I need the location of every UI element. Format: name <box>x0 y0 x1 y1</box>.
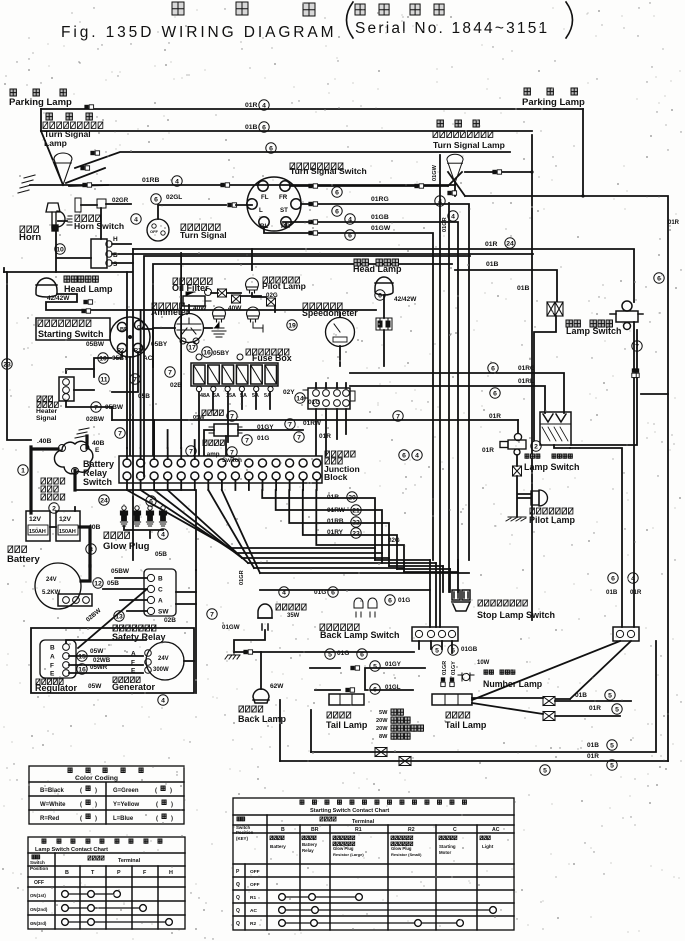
svg-text:Starting Switch Contact Chart: Starting Switch Contact Chart <box>310 808 389 814</box>
svg-text:6: 6 <box>491 365 495 372</box>
key lamp switch feed from 01R24 <box>633 322 635 368</box>
lamp feed diagonals <box>66 168 108 186</box>
oil filter symbol <box>0 0 1 1</box>
glow plug wires <box>124 526 163 538</box>
svg-text:Terminal: Terminal <box>352 819 375 825</box>
svg-text:5: 5 <box>610 762 614 769</box>
svg-text:Stop Lamp Switch: Stop Lamp Switch <box>477 610 555 620</box>
battery 1 <box>26 511 50 541</box>
beacon lamp <box>258 604 272 630</box>
svg-text:): ) <box>95 788 97 794</box>
svg-text:B: B <box>65 870 69 876</box>
starting switch circle <box>110 317 150 357</box>
svg-text:23: 23 <box>352 530 360 537</box>
svg-text:5: 5 <box>610 742 614 749</box>
diagonal 02BW <box>78 589 147 648</box>
svg-text:Head Lamp: Head Lamp <box>64 284 113 294</box>
svg-text:FR: FR <box>279 194 288 201</box>
starting switch contact chart <box>233 798 514 930</box>
parking lamp right label <box>524 88 530 95</box>
svg-text:ST: ST <box>280 207 288 214</box>
turn signal switch label <box>290 163 343 169</box>
battery relay switch blob <box>54 441 92 474</box>
AC row contacts <box>282 909 493 911</box>
svg-text:E: E <box>131 668 136 675</box>
svg-text:6: 6 <box>335 208 339 215</box>
horn relay box <box>91 239 107 268</box>
svg-text:Relay: Relay <box>302 848 314 853</box>
generator <box>146 642 184 680</box>
svg-text:02G: 02G <box>388 537 400 544</box>
glow plug label <box>104 532 129 538</box>
svg-text:Resistor (Small): Resistor (Small) <box>391 852 422 857</box>
svg-text:01GW: 01GW <box>222 624 240 631</box>
svg-text:02BW: 02BW <box>86 416 105 423</box>
head lamp right symbol <box>375 277 393 295</box>
svg-text:AC: AC <box>143 355 153 362</box>
svg-text:SW: SW <box>158 609 169 616</box>
bundle horizontals <box>230 548 469 573</box>
svg-text:20W: 20W <box>376 726 388 732</box>
turn signal switch circle <box>247 177 301 231</box>
svg-text:7: 7 <box>168 369 172 376</box>
svg-text:B=Black: B=Black <box>40 788 65 794</box>
wire 23 left vertical <box>7 272 31 440</box>
color coding table <box>29 766 184 824</box>
svg-text:(: ( <box>156 816 158 822</box>
svg-text:R2: R2 <box>408 827 415 833</box>
starter motor <box>35 563 81 609</box>
svg-text:05WR: 05WR <box>90 664 108 671</box>
heater signal wires <box>66 369 112 407</box>
svg-text:20W: 20W <box>376 718 388 724</box>
horn wires <box>56 204 131 272</box>
svg-text:01GY: 01GY <box>385 661 402 668</box>
svg-text:G=Green: G=Green <box>113 788 139 794</box>
svg-text:02WB: 02WB <box>93 657 111 664</box>
svg-text:17: 17 <box>188 344 196 351</box>
svg-text:5: 5 <box>328 651 332 658</box>
svg-text:5W: 5W <box>379 710 388 716</box>
svg-text:01B: 01B <box>575 692 587 699</box>
svg-text:Parking Lamp: Parking Lamp <box>9 97 72 108</box>
heater signal symbol <box>59 377 74 401</box>
svg-text:15: 15 <box>78 653 86 660</box>
svg-text:Glow Plug: Glow Plug <box>333 846 354 851</box>
svg-text:C: C <box>158 587 163 594</box>
svg-text:12V: 12V <box>59 516 72 523</box>
svg-text:01RW: 01RW <box>303 420 322 427</box>
svg-text:Battery: Battery <box>270 844 286 849</box>
x connectors bottom right <box>543 697 555 706</box>
title (適用号機) parens <box>347 2 354 38</box>
svg-text:01G: 01G <box>257 435 269 442</box>
svg-text:7: 7 <box>230 413 234 420</box>
junction block label <box>325 451 355 457</box>
thick 40B wires <box>31 447 58 513</box>
svg-text:8W: 8W <box>379 734 388 740</box>
svg-text:6: 6 <box>402 452 406 459</box>
svg-text:4: 4 <box>161 697 165 704</box>
on1 row <box>65 893 117 895</box>
regulator box <box>40 640 76 678</box>
svg-text:01R: 01R <box>485 241 498 248</box>
svg-text:20: 20 <box>348 494 356 501</box>
wire 02G <box>316 490 404 572</box>
svg-text:Color Coding: Color Coding <box>75 775 118 782</box>
svg-text:Fuse Box: Fuse Box <box>252 353 292 363</box>
svg-text:11: 11 <box>100 376 107 383</box>
svg-text:4: 4 <box>451 213 455 220</box>
svg-text:12V: 12V <box>29 516 42 523</box>
main horizontal wire 01RB <box>30 184 455 186</box>
vertical 01GW label <box>432 164 438 181</box>
svg-text:24: 24 <box>506 240 514 247</box>
svg-text:02GL: 02GL <box>166 194 182 201</box>
svg-text:Regulator: Regulator <box>35 683 78 693</box>
svg-text:01RW: 01RW <box>327 507 346 514</box>
svg-text:BR: BR <box>311 827 319 833</box>
svg-text:01G: 01G <box>337 650 349 657</box>
speedometer label <box>303 303 342 309</box>
svg-text:1: 1 <box>21 467 25 474</box>
svg-text:): ) <box>171 816 173 822</box>
svg-text:6: 6 <box>335 189 339 196</box>
head lamp left label <box>64 276 77 282</box>
svg-text:Lamp Switch: Lamp Switch <box>566 326 622 336</box>
svg-text:): ) <box>95 802 97 808</box>
ground left of turn signal lamp <box>18 175 35 193</box>
svg-text:05W: 05W <box>88 683 102 690</box>
svg-text:Parking Lamp: Parking Lamp <box>522 97 585 108</box>
svg-text:01GW: 01GW <box>432 164 438 181</box>
svg-text:H: H <box>113 236 118 243</box>
right lamp cross wires <box>448 172 465 196</box>
svg-text:01R: 01R <box>668 220 680 226</box>
svg-text:(KEY): (KEY) <box>236 836 248 841</box>
svg-text:6: 6 <box>388 597 392 604</box>
svg-text:42/42W: 42/42W <box>394 296 417 303</box>
svg-text:Motor: Motor <box>439 850 451 855</box>
svg-text:01GR: 01GR <box>442 217 448 232</box>
turn signal lamp left symbol <box>54 153 72 185</box>
svg-text:Switch: Switch <box>83 477 112 487</box>
wire 01R top <box>41 108 583 110</box>
flasher wires <box>158 205 226 219</box>
svg-text:): ) <box>95 816 97 822</box>
svg-text:ON(1st): ON(1st) <box>30 893 46 898</box>
svg-text:5: 5 <box>543 767 547 774</box>
svg-text:5A: 5A <box>240 393 247 399</box>
wire 01RL to lamp switch <box>350 386 545 413</box>
bundle fan-out from junction block <box>127 490 230 548</box>
pilot lamp right label <box>530 508 573 514</box>
svg-text:01RG: 01RG <box>371 196 389 203</box>
svg-text:4: 4 <box>631 575 635 582</box>
svg-text:Speedometer: Speedometer <box>302 308 358 318</box>
lamp switch main box <box>540 412 571 445</box>
svg-text:Starting: Starting <box>439 844 456 849</box>
svg-text:Resistor (Large): Resistor (Large) <box>333 852 364 857</box>
svg-text:Horn: Horn <box>19 232 41 243</box>
svg-text:Glow Plug: Glow Plug <box>391 846 412 851</box>
svg-text:Heater: Heater <box>36 408 58 415</box>
svg-text:4: 4 <box>262 102 266 109</box>
title japanese 配線図 <box>172 2 184 15</box>
tail lamp right <box>432 694 472 705</box>
heater signal label <box>37 396 53 401</box>
svg-text:(: ( <box>156 802 158 808</box>
svg-text:7: 7 <box>210 611 214 618</box>
head lamp left symbol <box>36 278 57 297</box>
svg-text:10: 10 <box>99 355 107 362</box>
svg-text:01R: 01R <box>589 705 601 712</box>
svg-text:5: 5 <box>435 647 439 654</box>
svg-text:(: ( <box>155 788 157 794</box>
svg-text:Signal: Signal <box>36 415 57 422</box>
svg-text:.40B: .40B <box>37 438 51 445</box>
svg-text:6: 6 <box>360 651 364 658</box>
horn switch <box>75 198 81 212</box>
on2 row <box>65 907 143 909</box>
svg-text:B: B <box>50 645 55 652</box>
svg-text:10: 10 <box>56 246 64 253</box>
svg-text:S: S <box>113 261 118 268</box>
svg-text:21: 21 <box>352 507 360 514</box>
lamp switch contact chart <box>28 837 185 929</box>
dash lamp switch connector box <box>308 388 350 409</box>
lamp switch label <box>525 454 540 458</box>
svg-text:Q: Q <box>236 921 240 927</box>
svg-text:B: B <box>281 827 285 833</box>
svg-text:01B: 01B <box>517 285 530 292</box>
svg-text:E: E <box>95 447 100 454</box>
svg-text:5: 5 <box>608 692 612 699</box>
wire 01RG to lamp switch <box>350 373 564 413</box>
turn signal lamp left label <box>46 113 52 120</box>
svg-text:6: 6 <box>154 196 158 203</box>
svg-text:01R: 01R <box>587 753 599 760</box>
svg-text:3: 3 <box>89 546 93 553</box>
wire 01RW 21 <box>276 490 382 563</box>
svg-text:6: 6 <box>262 124 266 131</box>
horn symbol <box>46 203 65 231</box>
svg-text:5: 5 <box>373 663 377 670</box>
svg-text:Turn Signal: Turn Signal <box>180 230 227 240</box>
svg-text:01GB: 01GB <box>371 214 389 221</box>
svg-text:01RL: 01RL <box>518 378 534 385</box>
svg-text:Head Lamp: Head Lamp <box>353 264 402 274</box>
key lamp switch right <box>610 301 643 330</box>
svg-text:(: ( <box>80 788 82 794</box>
ammeter wires <box>153 305 212 328</box>
svg-text:01GB: 01GB <box>461 646 478 653</box>
diagonals to tail lamp <box>472 641 631 700</box>
lamp switch small symbol <box>500 433 526 455</box>
svg-text:24: 24 <box>100 497 108 504</box>
svg-text:6: 6 <box>493 390 497 397</box>
wires 01GY 01GL <box>365 668 425 690</box>
svg-text:01GY: 01GY <box>451 661 457 675</box>
svg-text:300W: 300W <box>153 667 169 673</box>
40W bulbs <box>213 307 226 322</box>
svg-text:16: 16 <box>78 666 86 673</box>
svg-text:7: 7 <box>288 421 292 428</box>
svg-text:R1: R1 <box>355 827 362 833</box>
svg-text:ON(2nd): ON(2nd) <box>30 907 48 912</box>
svg-text:Pilot Lamp: Pilot Lamp <box>262 281 306 291</box>
turn signal lamp right symbol <box>447 154 463 183</box>
fuse box <box>191 363 278 386</box>
svg-text:P: P <box>117 870 121 876</box>
starting switch wires <box>94 329 153 455</box>
svg-text:05BW: 05BW <box>86 341 105 348</box>
wires from relay <box>112 244 533 263</box>
svg-text:01R: 01R <box>327 494 339 501</box>
svg-text:A: A <box>131 651 136 658</box>
svg-text:Q: Q <box>236 908 240 914</box>
svg-text:7: 7 <box>396 413 400 420</box>
svg-text:10W: 10W <box>477 660 490 666</box>
svg-text:L: L <box>259 207 263 214</box>
enclosure box bottom-left <box>31 628 194 693</box>
svg-text:01RY: 01RY <box>327 529 344 536</box>
wire 01RY 23 <box>303 490 397 569</box>
generator label <box>113 677 140 682</box>
back lamp switch <box>320 624 359 630</box>
svg-text:C: C <box>453 827 457 833</box>
svg-text:01GW: 01GW <box>371 225 391 232</box>
wire 01B right <box>455 270 557 301</box>
parking lamp left label <box>10 89 16 96</box>
bottom long wires <box>311 641 656 752</box>
svg-text:FL: FL <box>261 194 269 201</box>
svg-text:01B: 01B <box>606 589 618 596</box>
battery 2 <box>56 511 80 541</box>
svg-text:E: E <box>50 671 55 678</box>
svg-text:Terminal: Terminal <box>118 858 141 864</box>
svg-text:4: 4 <box>415 452 419 459</box>
ammeter label <box>152 303 184 309</box>
wire 01R 24 <box>133 248 634 250</box>
svg-text:Back Lamp Switch: Back Lamp Switch <box>320 630 400 640</box>
safety relay label <box>113 625 156 631</box>
head lamp right connector <box>376 318 392 330</box>
svg-text:62W: 62W <box>270 683 284 690</box>
svg-text:Battery: Battery <box>7 554 40 565</box>
horn label <box>20 226 39 232</box>
ammeter symbol <box>175 314 204 343</box>
svg-text:01B: 01B <box>245 124 258 131</box>
right connector box <box>613 627 639 641</box>
svg-text:6: 6 <box>611 575 615 582</box>
regulator wires <box>66 640 146 673</box>
svg-text:150AH: 150AH <box>59 529 76 535</box>
svg-text:05BY: 05BY <box>213 350 230 357</box>
wire 01RG <box>301 204 469 560</box>
svg-text:7: 7 <box>245 437 249 444</box>
svg-text:): ) <box>170 788 172 794</box>
svg-text:01G: 01G <box>398 597 410 604</box>
small lamp switch lower <box>214 424 238 436</box>
svg-text:4: 4 <box>175 178 179 185</box>
svg-text:40B: 40B <box>92 440 105 447</box>
svg-text:Lamp Switch: Lamp Switch <box>524 462 580 472</box>
svg-text:L=Blue: L=Blue <box>113 816 134 822</box>
turn signal label <box>181 224 220 230</box>
svg-text:Serial No. 1844~3151: Serial No. 1844~3151 <box>355 20 549 37</box>
svg-text:F: F <box>131 660 135 667</box>
svg-text:OFF: OFF <box>150 229 159 234</box>
svg-text:AC: AC <box>492 827 500 833</box>
svg-text:OFF: OFF <box>250 869 260 875</box>
connector below <box>635 368 639 377</box>
svg-text:05BW: 05BW <box>105 404 124 411</box>
right 01B 01R drops <box>633 250 635 302</box>
wire 01GB <box>283 222 458 592</box>
svg-text:24V: 24V <box>46 577 57 583</box>
svg-text:6: 6 <box>149 498 153 505</box>
back lamp <box>253 689 269 703</box>
svg-text:OFF: OFF <box>34 880 44 886</box>
svg-text:6: 6 <box>348 232 352 239</box>
oil filter connectors <box>218 289 227 297</box>
svg-text:5: 5 <box>451 647 455 654</box>
svg-text:B: B <box>113 252 118 259</box>
svg-text:35W: 35W <box>287 613 300 619</box>
indicator bulbs above back lamp switch <box>354 598 363 617</box>
wire 01R 20 <box>262 490 375 560</box>
regulator label <box>36 679 63 684</box>
junction block <box>119 456 322 483</box>
svg-text:5A: 5A <box>213 393 220 399</box>
svg-text:01R: 01R <box>245 102 258 109</box>
svg-text:40W: 40W <box>193 305 207 312</box>
svg-text:12: 12 <box>94 580 102 587</box>
R1 row contacts <box>282 896 359 898</box>
svg-text:Tail Lamp: Tail Lamp <box>445 720 487 730</box>
right lamp switch fuse connector <box>547 302 563 316</box>
pilot lamp right <box>531 490 548 506</box>
back lamp switch wires <box>419 641 452 653</box>
svg-text:A: A <box>158 598 163 605</box>
svg-text:Tail Lamp: Tail Lamp <box>326 720 368 730</box>
on3 row <box>65 921 169 923</box>
svg-text:16: 16 <box>203 349 211 356</box>
fuse box label <box>246 349 289 355</box>
svg-text:Q: Q <box>236 882 240 888</box>
svg-text:14: 14 <box>296 395 304 402</box>
svg-text:A: A <box>50 654 55 661</box>
svg-text:AC: AC <box>250 908 257 914</box>
svg-text:Position: Position <box>236 830 254 835</box>
svg-text:01RG: 01RG <box>518 365 535 372</box>
svg-text:01B: 01B <box>587 742 599 749</box>
pilot lamp top label <box>263 277 300 283</box>
svg-text:Lamp Switch Contact Chart: Lamp Switch Contact Chart <box>35 847 108 853</box>
svg-text:01R: 01R <box>630 589 642 596</box>
svg-text:05W: 05W <box>193 415 205 421</box>
parking lamp right wire <box>582 109 584 196</box>
wire 01B <box>41 130 532 132</box>
svg-text:Turn Signal Lamp: Turn Signal Lamp <box>433 140 505 150</box>
svg-text:Fig. 135D WIRING DIAGRAM: Fig. 135D WIRING DIAGRAM <box>61 24 336 41</box>
svg-text:48A: 48A <box>200 393 210 399</box>
svg-text:Block: Block <box>324 472 348 482</box>
svg-text:01R: 01R <box>482 447 494 454</box>
oil filter label <box>173 278 212 284</box>
svg-text:(: ( <box>80 802 82 808</box>
